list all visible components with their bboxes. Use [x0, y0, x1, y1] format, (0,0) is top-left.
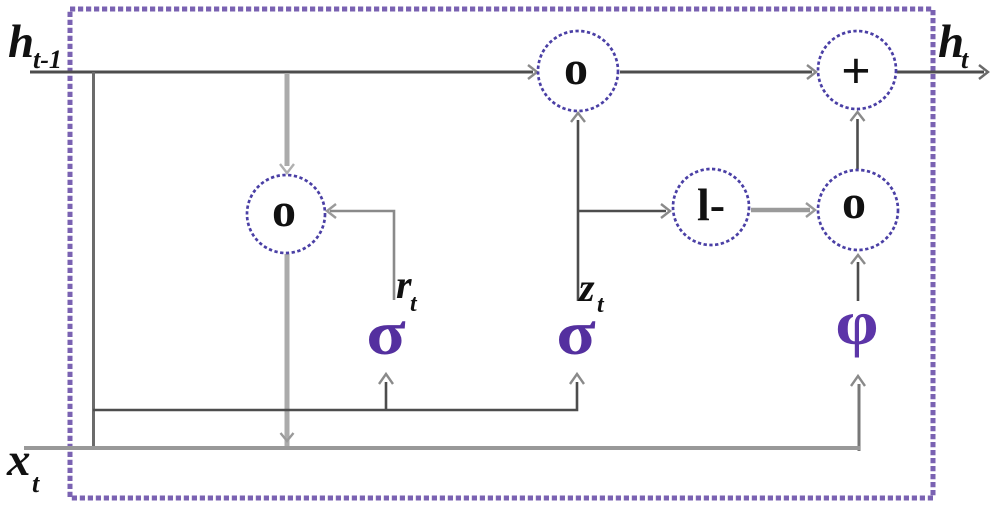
arrowhead down into xt line [281, 433, 294, 441]
arrowhead into one-minus [661, 204, 670, 218]
arrowhead into phi [851, 376, 865, 386]
op circle o3 candidate hadamard [818, 170, 898, 250]
wire z(t) up into o2 [577, 120, 580, 301]
op circle o2 update hadamard [538, 31, 618, 111]
wire h(t-1) top line segment 1 [30, 71, 533, 74]
wire h top line segment 3 (plus to output) [897, 71, 984, 74]
svg-text:o: o [272, 184, 296, 237]
arrowhead into sigma z [570, 374, 584, 384]
arrowhead into o3 left [806, 203, 815, 217]
wire z branch to one-minus [578, 210, 666, 213]
wire phi up to o3 [857, 262, 860, 301]
arrowhead into o2 bottom [571, 113, 585, 122]
wire lower dark line to sigmas [93, 382, 577, 410]
op circle one-minus [673, 169, 749, 245]
arrowhead into plus bottom [851, 112, 865, 121]
svg-text:o: o [564, 42, 588, 95]
wire thick one-minus to o3 [751, 208, 810, 213]
svg-text:t-1: t-1 [33, 45, 62, 74]
wire o3 up to plus [856, 119, 859, 169]
wire r(t) into o1 [330, 211, 394, 300]
svg-text:t: t [961, 45, 969, 74]
svg-text:σ: σ [366, 299, 406, 368]
svg-text:l-: l- [697, 179, 725, 230]
svg-text:o: o [842, 176, 866, 229]
arrowhead into plus [807, 65, 816, 79]
arrowhead into o3 bottom [851, 255, 865, 264]
svg-text:σ: σ [556, 299, 596, 368]
arrowhead into sigma r [379, 374, 393, 384]
op circle o1 reset hadamard [247, 175, 325, 253]
wire branch up to sigma r [385, 382, 388, 410]
svg-text:x: x [6, 434, 31, 486]
arrowhead into o1 right [327, 204, 336, 218]
wire h down at left [92, 72, 95, 446]
op circle plus adder [818, 31, 896, 109]
wire thick gray o1 down to xt line [285, 254, 290, 446]
arrowhead into o2 [528, 65, 537, 79]
wire x(t) bottom gray line [24, 446, 860, 450]
arrowhead output h(t) [979, 65, 988, 79]
wire below phi from xt line [858, 384, 861, 451]
wire h top line segment 2 (o2 to plus) [620, 71, 812, 74]
arrowhead into o1 top [280, 164, 294, 173]
svg-text:+: + [841, 43, 871, 100]
wire thick gray down to o1 [285, 73, 290, 166]
svg-text:h: h [8, 16, 34, 68]
svg-text:t: t [32, 469, 40, 498]
svg-text:φ: φ [835, 288, 878, 358]
